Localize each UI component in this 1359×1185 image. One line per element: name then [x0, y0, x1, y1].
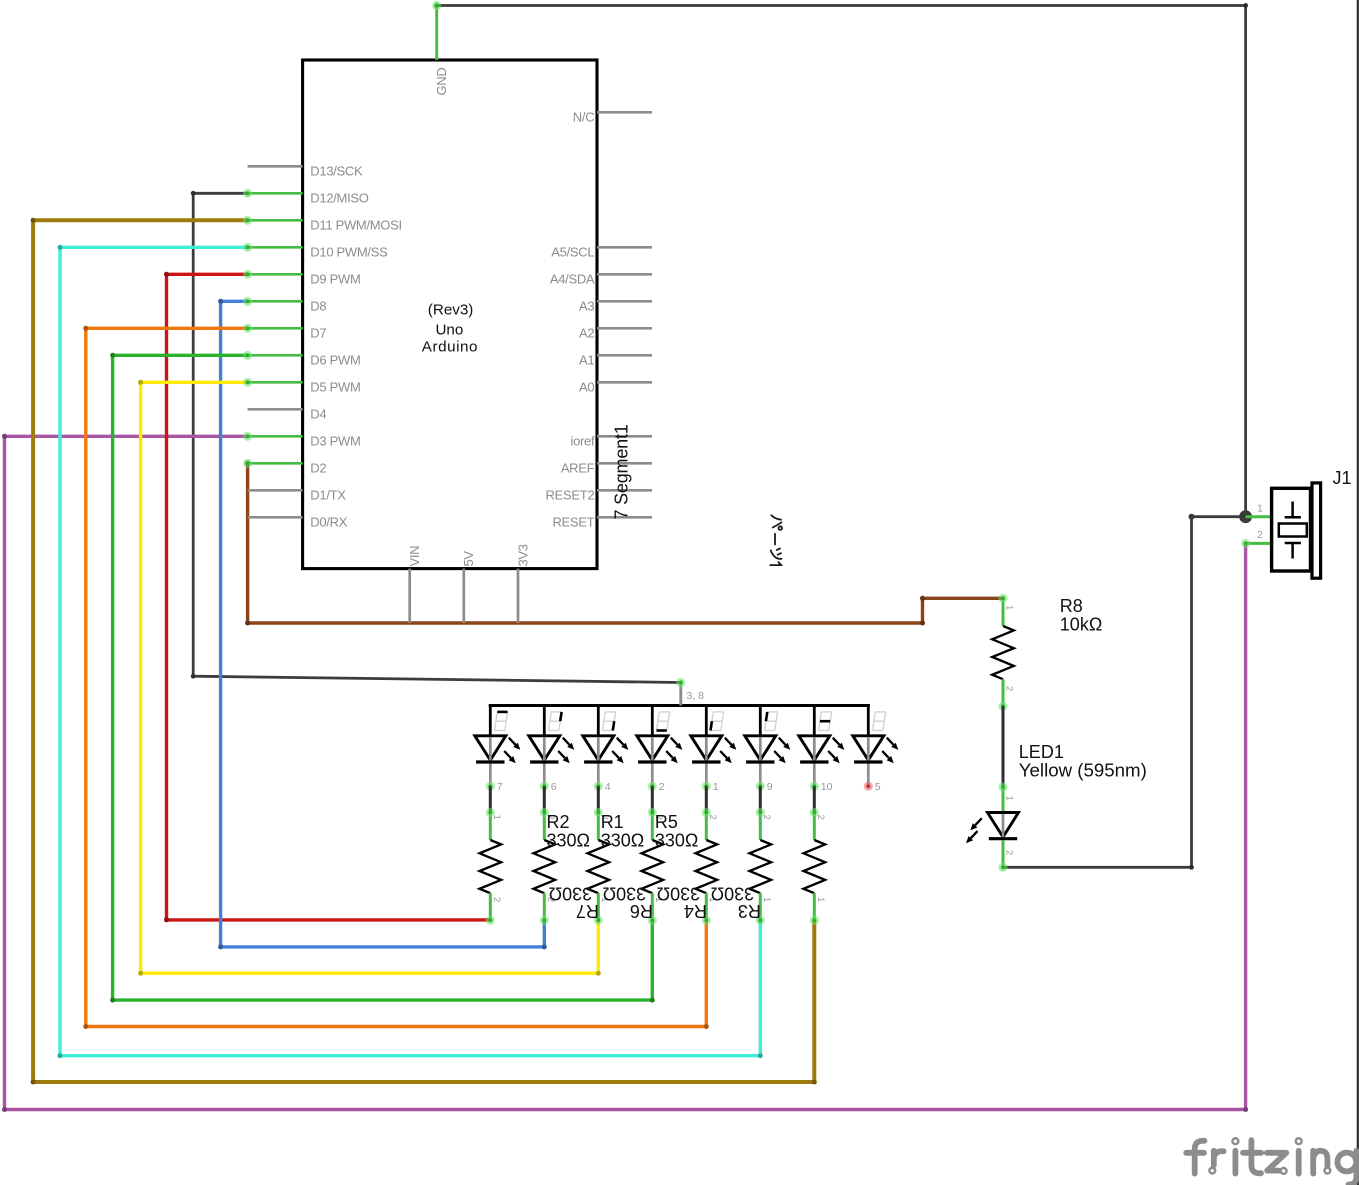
svg-text:A5/SCL: A5/SCL — [551, 245, 594, 260]
svg-text:D13/SCK: D13/SCK — [310, 164, 363, 179]
wire: D11 olive net — [33, 220, 814, 1082]
svg-text:R6: R6 — [630, 901, 653, 921]
wire: 7seg pin to resistor 2 — [543, 786, 546, 812]
pin ioref (right leg) — [597, 435, 652, 438]
pin VIN — [408, 569, 411, 623]
resistor 1 (vertical 330 ohm) — [480, 808, 502, 925]
pin D3 PWM (left leg) — [248, 435, 303, 438]
svg-text:R4: R4 — [684, 901, 707, 921]
svg-text:3V3: 3V3 — [515, 544, 530, 566]
svg-text:GND: GND — [434, 68, 449, 96]
svg-text:330Ω: 330Ω — [657, 884, 701, 904]
pin D12/MISO (left leg) — [248, 192, 303, 195]
svg-text:D3 PWM: D3 PWM — [310, 434, 360, 449]
svg-text:D8: D8 — [310, 299, 326, 314]
pin AREF (right leg) — [597, 462, 652, 465]
svg-text:A0: A0 — [579, 380, 594, 395]
resistor 7 (vertical 330 ohm) — [804, 808, 826, 925]
7-seg LED element 5 (pin 1) — [691, 706, 737, 793]
wire: D9 red net — [167, 274, 491, 920]
resistor 2 (vertical 330 ohm) — [534, 808, 556, 925]
pin N/C (right leg) — [597, 111, 652, 114]
7-segment common pin leg (3,8) — [679, 683, 682, 706]
pin D1/TX (left leg) — [248, 489, 303, 492]
svg-text:R7: R7 — [576, 901, 599, 921]
svg-text:D2: D2 — [310, 461, 326, 476]
wire: D6 green net — [113, 355, 653, 1000]
svg-text:LED1: LED1 — [1019, 742, 1064, 762]
wire: D12 net (dark gray) to 7-segment common — [193, 193, 681, 682]
svg-text:1: 1 — [815, 897, 826, 902]
resistor 3 (vertical 330 ohm) — [588, 808, 610, 925]
wire: D5 yellow net — [141, 382, 599, 973]
svg-text:R8: R8 — [1060, 596, 1083, 616]
pin D2 (left leg) — [248, 462, 303, 465]
svg-text:5V: 5V — [461, 551, 476, 567]
svg-text:9: 9 — [767, 781, 773, 793]
wire: D8 blue net — [221, 301, 545, 947]
pin RESET2 (right leg) — [597, 489, 652, 492]
pin D13/SCK (left leg) — [248, 165, 303, 168]
wire: 7seg pin to resistor 4 — [651, 786, 654, 812]
svg-text:D9 PWM: D9 PWM — [310, 272, 360, 287]
svg-text:Arduino: Arduino — [422, 338, 478, 355]
pin D6 PWM (left leg) — [248, 354, 303, 357]
label parts1 (katakana, rotated) — [770, 515, 782, 565]
svg-text:D5 PWM: D5 PWM — [310, 380, 360, 395]
svg-text:Uno: Uno — [435, 322, 463, 339]
svg-text:1: 1 — [491, 815, 502, 820]
pin D9 PWM (left leg) — [248, 273, 303, 276]
svg-text:J1: J1 — [1333, 468, 1352, 488]
svg-text:2: 2 — [815, 815, 826, 820]
svg-text:D11 PWM/MOSI: D11 PWM/MOSI — [310, 218, 402, 233]
pin D4 (left leg) — [248, 408, 303, 411]
svg-text:330Ω: 330Ω — [547, 831, 591, 851]
svg-text:2: 2 — [1004, 686, 1015, 691]
wire: 7seg pin to resistor 7 — [813, 786, 816, 812]
svg-text:A4/SDA: A4/SDA — [550, 272, 595, 287]
wire: R8 pin2 to LED1 pin1 — [1002, 706, 1005, 787]
svg-text:D4: D4 — [310, 407, 326, 422]
svg-text:(Rev3): (Rev3) — [428, 302, 474, 319]
svg-text:5: 5 — [875, 781, 881, 793]
wire: D3 purple net to J1 pin 2 — [5, 436, 1246, 1109]
svg-text:ioref: ioref — [571, 434, 595, 449]
svg-text:Yellow (595nm): Yellow (595nm) — [1019, 761, 1147, 781]
svg-text:D7: D7 — [310, 326, 326, 341]
svg-text:2: 2 — [761, 815, 772, 820]
fritzing logo — [1186, 1140, 1356, 1184]
svg-text:330Ω: 330Ω — [711, 884, 755, 904]
pin 3V3 — [517, 569, 520, 623]
wire: 7seg pin to resistor 3 — [597, 786, 600, 812]
7-seg LED element 8 (pin 5) — [853, 706, 899, 793]
pin A1 (right leg) — [597, 354, 652, 357]
svg-text:2: 2 — [491, 897, 502, 902]
svg-text:D0/RX: D0/RX — [310, 515, 347, 530]
pin A0 (right leg) — [597, 381, 652, 384]
svg-text:2: 2 — [1257, 529, 1263, 541]
resistor 5 (vertical 330 ohm) — [696, 808, 718, 925]
wire: D7 orange net — [86, 328, 707, 1026]
svg-text:RESET2: RESET2 — [546, 488, 595, 503]
pin D8 (left leg) — [248, 300, 303, 303]
pin D10 PWM/SS (left leg) — [248, 246, 303, 249]
svg-text:N/C: N/C — [573, 110, 595, 125]
wire: D10 cyan net — [60, 247, 760, 1055]
svg-text:1: 1 — [1004, 605, 1015, 610]
wire: 7seg pin to resistor 6 — [759, 786, 762, 812]
node: junction of GND net at J1 pin 1 — [1239, 510, 1252, 523]
pin A5/SCL (right leg) — [597, 246, 652, 249]
svg-text:2: 2 — [707, 815, 718, 820]
svg-text:D1/TX: D1/TX — [310, 488, 346, 503]
svg-text:1: 1 — [1257, 503, 1263, 515]
svg-text:R3: R3 — [738, 901, 761, 921]
svg-text:330Ω: 330Ω — [603, 884, 647, 904]
svg-text:330Ω: 330Ω — [655, 831, 699, 851]
7-segment display U2: top bus — [489, 704, 870, 707]
7-seg LED element 6 (pin 9) — [745, 706, 791, 793]
pin GND (top leg, connected) — [435, 6, 438, 61]
svg-text:330Ω: 330Ω — [601, 831, 645, 851]
resistor 4 (vertical 330 ohm) — [642, 808, 664, 925]
pin D5 PWM (left leg) — [248, 381, 303, 384]
svg-text:D12/MISO: D12/MISO — [310, 191, 368, 206]
svg-text:2: 2 — [659, 781, 665, 793]
wire: GND net top run from Arduino GND to J1 junction — [437, 6, 1246, 517]
svg-text:3, 8: 3, 8 — [687, 690, 705, 702]
svg-text:R1: R1 — [601, 812, 624, 832]
7-seg LED element 7 (pin 10) — [799, 706, 845, 793]
svg-text:10: 10 — [821, 781, 833, 793]
wire: D2 brown net to R8 pin 1 — [248, 463, 1003, 623]
7-seg LED element 3 (pin 4) — [583, 706, 629, 793]
resistor 6 (vertical 330 ohm) — [750, 808, 772, 925]
svg-text:A3: A3 — [579, 299, 594, 314]
svg-text:10kΩ: 10kΩ — [1060, 615, 1102, 635]
svg-text:4: 4 — [605, 781, 611, 793]
pin RESET (right leg) — [597, 516, 652, 519]
node: GND net corner at x=1191 — [1189, 514, 1195, 520]
7-seg LED element 2 (pin 6) — [529, 706, 575, 793]
svg-text:R5: R5 — [655, 812, 678, 832]
wire: 7seg pin to resistor 5 — [705, 786, 708, 812]
svg-text:D10 PWM/SS: D10 PWM/SS — [310, 245, 388, 260]
pin A4/SDA (right leg) — [597, 273, 652, 276]
resistor R8 (10k vertical) — [992, 594, 1014, 711]
pin 5V — [462, 569, 465, 623]
svg-text:6: 6 — [551, 781, 557, 793]
right edge vertical line — [1357, 0, 1359, 1185]
connector J1 (piezo) — [1241, 483, 1321, 578]
pin A2 (right leg) — [597, 327, 652, 330]
svg-text:A2: A2 — [579, 326, 594, 341]
svg-text:RESET: RESET — [552, 515, 594, 530]
svg-text:1: 1 — [1004, 796, 1015, 801]
svg-text:VIN: VIN — [407, 546, 422, 567]
svg-text:A1: A1 — [579, 353, 594, 368]
svg-text:1: 1 — [713, 781, 719, 793]
svg-text:R2: R2 — [547, 812, 570, 832]
pin D7 (left leg) — [248, 327, 303, 330]
pin D0/RX (left leg) — [248, 516, 303, 519]
pin A3 (right leg) — [597, 300, 652, 303]
pin D11 PWM/MOSI (left leg) — [248, 219, 303, 222]
wire: 7seg pin to resistor 1 — [489, 786, 492, 812]
svg-text:7 Segment1: 7 Segment1 — [612, 424, 632, 519]
LED1 (yellow 595nm) — [966, 782, 1019, 872]
svg-text:AREF: AREF — [561, 461, 595, 476]
7-seg LED element 1 (pin 7) — [475, 706, 521, 793]
svg-text:2: 2 — [1004, 850, 1015, 855]
Arduino U1 body — [303, 60, 597, 569]
7-seg LED element 4 (pin 2) — [637, 706, 683, 793]
svg-text:D6 PWM: D6 PWM — [310, 353, 360, 368]
svg-text:330Ω: 330Ω — [549, 884, 593, 904]
wire: junction to mid vertical — [1003, 517, 1246, 868]
svg-text:7: 7 — [497, 781, 503, 793]
svg-text:1: 1 — [761, 897, 772, 902]
